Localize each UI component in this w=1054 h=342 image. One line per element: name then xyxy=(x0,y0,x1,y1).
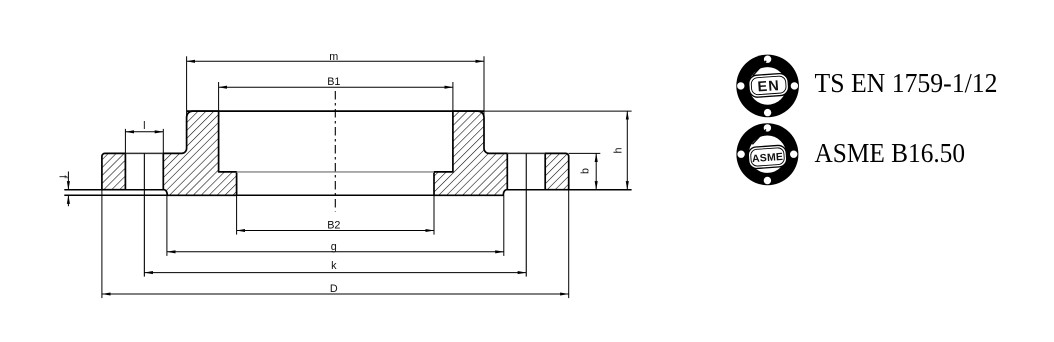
bolt hole centerline right xyxy=(525,153,527,276)
flange body left section (hatched) xyxy=(163,111,236,195)
extension line b (ring top extended) xyxy=(569,152,601,154)
bolt hole centerline left xyxy=(143,153,145,276)
hub top face line xyxy=(187,110,484,112)
socket step line across bore (grey) xyxy=(237,171,434,173)
svg-text:ASME: ASME xyxy=(752,151,784,165)
svg-text:h: h xyxy=(613,147,625,153)
back face line left xyxy=(64,189,164,191)
dimension line l xyxy=(125,131,163,133)
dimension line D xyxy=(102,293,569,295)
svg-text:b: b xyxy=(580,168,592,174)
EN logo flange ring xyxy=(736,55,799,118)
dimension line B1 xyxy=(219,86,453,88)
ASME logo flange ring xyxy=(736,123,798,185)
svg-text:TS EN 1759-1/12: TS EN 1759-1/12 xyxy=(815,67,998,98)
flange rim left outer section (hatched) xyxy=(102,153,126,189)
extension lines dimension m xyxy=(186,56,188,118)
svg-text:B2: B2 xyxy=(327,220,340,232)
dimension line b xyxy=(595,153,597,189)
ring top face line across bolt holes xyxy=(125,152,163,154)
dimension line h xyxy=(626,111,628,190)
extension lines dimension B1 xyxy=(218,82,220,111)
dimension line B2 xyxy=(237,230,434,232)
svg-text:EN: EN xyxy=(757,78,780,96)
raised face bottom line xyxy=(64,194,503,196)
svg-text:l: l xyxy=(143,120,145,132)
svg-text:D: D xyxy=(330,283,338,295)
dimension line m xyxy=(187,60,484,62)
svg-text:ASME B16.50: ASME B16.50 xyxy=(815,137,966,168)
extension lines dimension D xyxy=(101,190,103,298)
svg-text:m: m xyxy=(329,51,338,63)
flange body right section (hatched) xyxy=(434,111,507,195)
flange rim right outer section (hatched) xyxy=(545,153,569,189)
dimension line k xyxy=(144,272,526,274)
dimension line f (vertical, arrows outside) xyxy=(67,172,69,190)
vertical centerline xyxy=(334,91,336,212)
extension lines dimension B2 xyxy=(236,195,238,234)
extension line h (hub top extended) xyxy=(484,110,632,112)
svg-text:g: g xyxy=(331,241,337,253)
back face line right xyxy=(506,189,632,191)
extension lines dimension g xyxy=(166,195,168,256)
dimension line g xyxy=(167,251,504,253)
extension lines dimension l xyxy=(124,129,126,154)
svg-text:k: k xyxy=(331,260,337,272)
svg-text:B1: B1 xyxy=(327,76,340,88)
